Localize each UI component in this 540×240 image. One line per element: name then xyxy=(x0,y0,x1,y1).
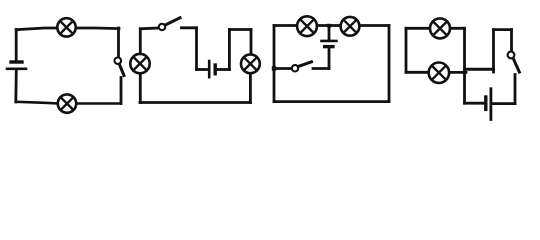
wire: C2 top jog xyxy=(229,28,251,31)
wire: C4 lampB right lead xyxy=(449,71,466,74)
lamp L7 (C4 top) xyxy=(430,18,450,38)
node: C3 junction left xyxy=(272,66,276,70)
wire: C4 top right of lamp xyxy=(450,27,465,30)
wire: C2 top right of switch xyxy=(182,26,197,29)
wire: C1 right lower xyxy=(120,78,123,104)
lamp L3 (C2 left) xyxy=(130,54,149,73)
wire: C4 middle vertical xyxy=(463,28,466,103)
wire: C3 bottom xyxy=(274,100,389,103)
switch S3 pivot circle xyxy=(292,65,298,71)
wire: C4 left vertical xyxy=(405,28,408,72)
wire: C1 left upper xyxy=(15,30,18,61)
wire: C3 left vertical xyxy=(273,26,276,102)
node: C3 battery junction on top wire xyxy=(327,24,331,28)
wire: C4 branch right leg xyxy=(510,30,513,52)
switch S1 blade xyxy=(119,64,124,76)
wire: C1 top xyxy=(16,28,119,30)
battery B1 long plate xyxy=(7,68,26,71)
lamp L6 (C3 right) xyxy=(341,17,360,36)
wire: C2 right vertical lower xyxy=(249,73,252,103)
wire: C2 mid-right vertical xyxy=(228,30,231,70)
battery B3 short plate xyxy=(325,45,333,48)
wire: C2 mid-left vertical xyxy=(195,28,198,70)
battery B2 short plate xyxy=(213,65,216,74)
wire: C2 battery right lead xyxy=(217,68,230,71)
battery B2 long plate xyxy=(208,61,211,77)
battery B4 short plate xyxy=(484,97,487,109)
wire: C4 bottom right xyxy=(493,102,516,105)
wire: C4 top left xyxy=(406,27,430,30)
lamp L4 (C2 right) xyxy=(241,54,260,73)
switch S4 blade xyxy=(513,58,519,72)
wire: C4 connector to switch branch xyxy=(465,68,494,71)
wire: C2 top left xyxy=(140,27,159,31)
battery B3 top stub xyxy=(328,26,331,40)
lamp L2 (C1 bottom) xyxy=(58,94,76,112)
wire: C1 left lower xyxy=(14,70,17,102)
wire: C1 right upper xyxy=(117,28,120,57)
wire: C1 bottom xyxy=(16,102,121,104)
switch S2 pivot circle xyxy=(159,24,165,30)
battery B4 long plate xyxy=(489,89,492,120)
switch S1 pivot circle xyxy=(115,57,122,64)
wire: C3 switch branch left xyxy=(274,67,292,70)
wire: B3 bottom stub xyxy=(328,48,331,68)
lamp L8 (C4 bottom) xyxy=(429,62,449,82)
wire: C2 battery left lead xyxy=(197,68,208,71)
lamp L1 (C1 top) xyxy=(57,18,75,36)
battery B1 short plate xyxy=(11,60,22,63)
wire: C3 right vertical xyxy=(388,26,391,102)
wire: C2 right vertical upper xyxy=(250,30,253,56)
lamp L5 (C3 left) xyxy=(297,16,317,36)
switch S3 blade xyxy=(298,62,312,67)
wire: C4 branch top xyxy=(494,28,512,31)
wire: C4 branch left leg xyxy=(492,30,495,72)
wire: C2 left vertical xyxy=(139,29,142,103)
switch S4 pivot circle xyxy=(508,52,515,59)
wire: C4 lampB left lead xyxy=(406,71,429,74)
wire: C4 bottom left xyxy=(465,102,485,105)
battery B3 long plate xyxy=(322,40,337,43)
wire: C3 top xyxy=(274,24,389,27)
wire: C2 bottom xyxy=(140,101,250,104)
wire: C3 switch branch right xyxy=(313,67,329,70)
switch S2 blade xyxy=(165,18,180,25)
wire: C4 right lower vertical xyxy=(514,75,517,104)
